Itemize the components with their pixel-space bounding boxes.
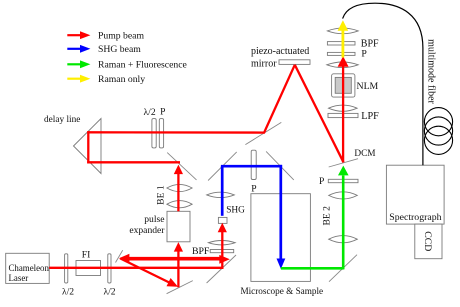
svg-text:BPF: BPF [192,246,210,257]
svg-text:P: P [251,183,256,194]
svg-text:FI: FI [82,249,91,260]
svg-text:Raman only: Raman only [98,74,145,85]
svg-text:Laser: Laser [9,273,29,283]
svg-text:P: P [160,106,165,117]
svg-text:SHG: SHG [226,206,245,216]
svg-text:CCD: CCD [422,231,433,251]
svg-text:λ/2: λ/2 [62,287,74,298]
svg-text:BE 1: BE 1 [156,185,167,205]
svg-text:pulse: pulse [144,214,164,225]
svg-text:delay line: delay line [44,115,80,125]
svg-text:P: P [319,176,324,187]
svg-text:P: P [361,48,367,59]
svg-text:Pump beam: Pump beam [98,31,144,42]
svg-text:Raman + Fluorescence: Raman + Fluorescence [98,60,187,71]
svg-text:DCM: DCM [354,149,375,159]
svg-text:expander: expander [129,225,165,236]
svg-text:BE 2: BE 2 [322,206,333,226]
svg-text:Microscope & Sample: Microscope & Sample [240,286,323,296]
svg-text:Chameleon: Chameleon [9,263,50,273]
svg-text:SHG beam: SHG beam [98,44,141,55]
svg-text:piezo-actuated: piezo-actuated [251,46,309,57]
svg-text:NLM: NLM [357,81,379,92]
svg-text:λ/2: λ/2 [144,107,156,118]
svg-text:mirror: mirror [251,59,277,70]
svg-text:LPF: LPF [361,111,379,122]
svg-text:λ/2: λ/2 [103,287,115,298]
svg-text:multimode fiber: multimode fiber [426,39,437,104]
svg-text:Spectrograph: Spectrograph [389,212,441,223]
